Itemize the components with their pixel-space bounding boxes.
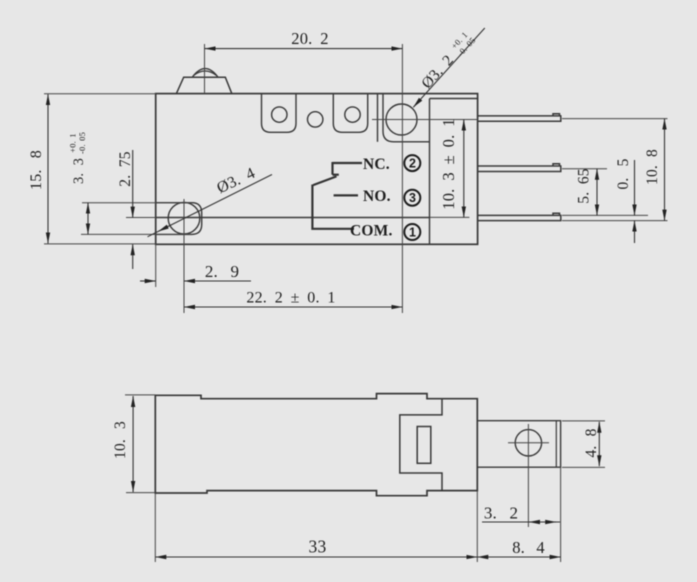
mounting hole pocket (top-right)	[383, 94, 430, 142]
dimension 10.8	[664, 119, 666, 221]
side view centerlines/extensions	[125, 395, 605, 562]
right hole horizontal centerline	[372, 119, 478, 121]
body left edge extension down (2.9)	[155, 244, 157, 287]
free hole B	[308, 112, 323, 127]
svg-text:2: 2	[409, 157, 416, 171]
terminal hole	[515, 430, 541, 456]
svg-text:0. 5: 0. 5	[615, 158, 632, 189]
NC vertical stub	[331, 162, 333, 175]
plunger dome cap	[192, 69, 218, 78]
case right face extension down (33/8.4)	[476, 491, 478, 562]
svg-text:COM.: COM.	[350, 223, 393, 240]
terminal bottom extension right (4.8)	[562, 466, 605, 468]
mounting hole bottom-left	[168, 202, 200, 234]
left hole centerline extension left	[126, 217, 156, 219]
latch recess inner rect	[417, 427, 431, 464]
boss bottom extension (3.3)	[81, 233, 191, 235]
svg-text:1: 1	[409, 226, 416, 240]
boss top extension (3.3)	[82, 202, 191, 204]
terminal1 top extension	[562, 214, 648, 216]
switch contact symbol	[312, 162, 362, 229]
dimension 10.3 ± 0.1 (inside body)	[463, 120, 465, 218]
dimension 20.2	[205, 48, 403, 50]
NC contact line	[333, 162, 363, 164]
internal horizontal case line	[156, 217, 430, 219]
top-right ledge	[430, 98, 478, 100]
hole in pocket A	[272, 107, 287, 122]
NO contact line	[334, 194, 358, 196]
hole in pocket C	[345, 107, 360, 122]
bottom edge extension (15.8)	[44, 243, 156, 245]
extension line long vertical through right hole	[401, 44, 403, 313]
mounting hole boss (bottom-left)	[156, 203, 202, 235]
leader Ø3.2 +0.1/-0.05	[413, 28, 485, 107]
plunger button trapezoid	[177, 77, 232, 93]
svg-text:4. 8: 4. 8	[583, 428, 600, 457]
terminal tip notch middle	[553, 164, 560, 166]
lever diagonal	[313, 176, 336, 185]
terminal hole vertical centerline	[527, 424, 529, 527]
terminal blades (front view)	[478, 114, 561, 221]
svg-text:15. 8: 15. 8	[28, 150, 45, 190]
switch body outline	[156, 94, 478, 245]
dimension 4.8	[598, 422, 600, 466]
svg-text:NC.: NC.	[363, 156, 390, 173]
pocket A (scallop with hole)	[262, 94, 297, 133]
dimension 3.2	[482, 521, 560, 523]
terminal hole horizontal centerline	[508, 442, 549, 444]
pocket C (scallop with hole)	[333, 94, 367, 133]
terminal3 center extension	[562, 168, 607, 170]
terminal blade COM (1) bottom	[478, 215, 561, 220]
side terminal end inner line	[555, 421, 557, 468]
svg-text:3. 2: 3. 2	[484, 504, 518, 523]
terminal end extension down (8.4)	[560, 467, 562, 562]
dimension 5.65	[596, 169, 598, 216]
10.3 dim bottom extension	[430, 216, 470, 218]
svg-text:10. 3: 10. 3	[112, 421, 129, 459]
10.3 bottom extension	[126, 492, 155, 494]
svg-text:10. 3 ± 0. 1: 10. 3 ± 0. 1	[439, 118, 458, 209]
terminal blade NC (2) top	[478, 116, 561, 121]
contact tick	[333, 174, 339, 176]
svg-text:8. 4: 8. 4	[512, 538, 545, 557]
svg-text:22. 2 ± 0. 1: 22. 2 ± 0. 1	[246, 290, 335, 307]
svg-text:5. 65: 5. 65	[576, 168, 593, 204]
labels NC/NO/COM	[350, 156, 393, 240]
latch recess outer	[400, 399, 442, 491]
svg-text:2. 75: 2. 75	[117, 151, 134, 187]
svg-text:3: 3	[409, 191, 416, 205]
dimension 0.5	[634, 160, 636, 243]
dimension 2.9	[140, 280, 251, 282]
svg-text:+0. 1: +0. 1	[68, 133, 78, 153]
dimension 3.3 +0.1/-0.05	[87, 203, 89, 235]
mounting hole top-right	[386, 104, 417, 135]
svg-text:-0. 05: -0. 05	[77, 132, 87, 154]
common vertical + COM line	[312, 185, 354, 229]
circled terminal number 3	[404, 190, 420, 206]
case outline	[155, 394, 477, 496]
dimension 22.2 ± 0.1	[184, 306, 402, 308]
terminal1 bottom extension	[562, 220, 668, 222]
svg-text:2. 9: 2. 9	[205, 262, 239, 281]
plunger centerline	[204, 44, 206, 94]
top edge extension (15.8)	[44, 93, 156, 95]
dimension 15.8	[47, 94, 49, 243]
case left edge extension down (33)	[154, 493, 156, 562]
dimension 10.3 (side)	[132, 396, 134, 492]
terminal2 center extension	[562, 118, 668, 120]
left hole vertical centerline	[183, 199, 185, 313]
svg-text:3. 3: 3. 3	[71, 158, 87, 184]
leader Ø3.4	[148, 175, 273, 237]
terminal blade NO (3) middle	[478, 166, 561, 172]
inner wall vertical (right column)	[429, 99, 431, 245]
terminal top extension right (4.8)	[562, 420, 605, 422]
rib wall line left of mounting hole pocket	[377, 94, 379, 142]
dimension 8.4	[477, 556, 560, 558]
terminal tip notch bottom	[553, 213, 560, 215]
dimension 33	[155, 556, 477, 558]
circled terminal number 1	[404, 224, 420, 240]
svg-text:NO.: NO.	[363, 188, 391, 205]
circled terminal number 2	[404, 155, 420, 171]
dimension 2.75	[132, 150, 134, 269]
svg-text:20. 2: 20. 2	[291, 29, 329, 48]
10.3 top extension	[125, 394, 155, 396]
plunger dome inner arc	[194, 71, 217, 76]
svg-text:10. 8: 10. 8	[644, 149, 661, 185]
side terminal blade	[477, 421, 560, 468]
svg-text:33: 33	[309, 537, 327, 557]
terminal tip notch top	[553, 114, 560, 116]
